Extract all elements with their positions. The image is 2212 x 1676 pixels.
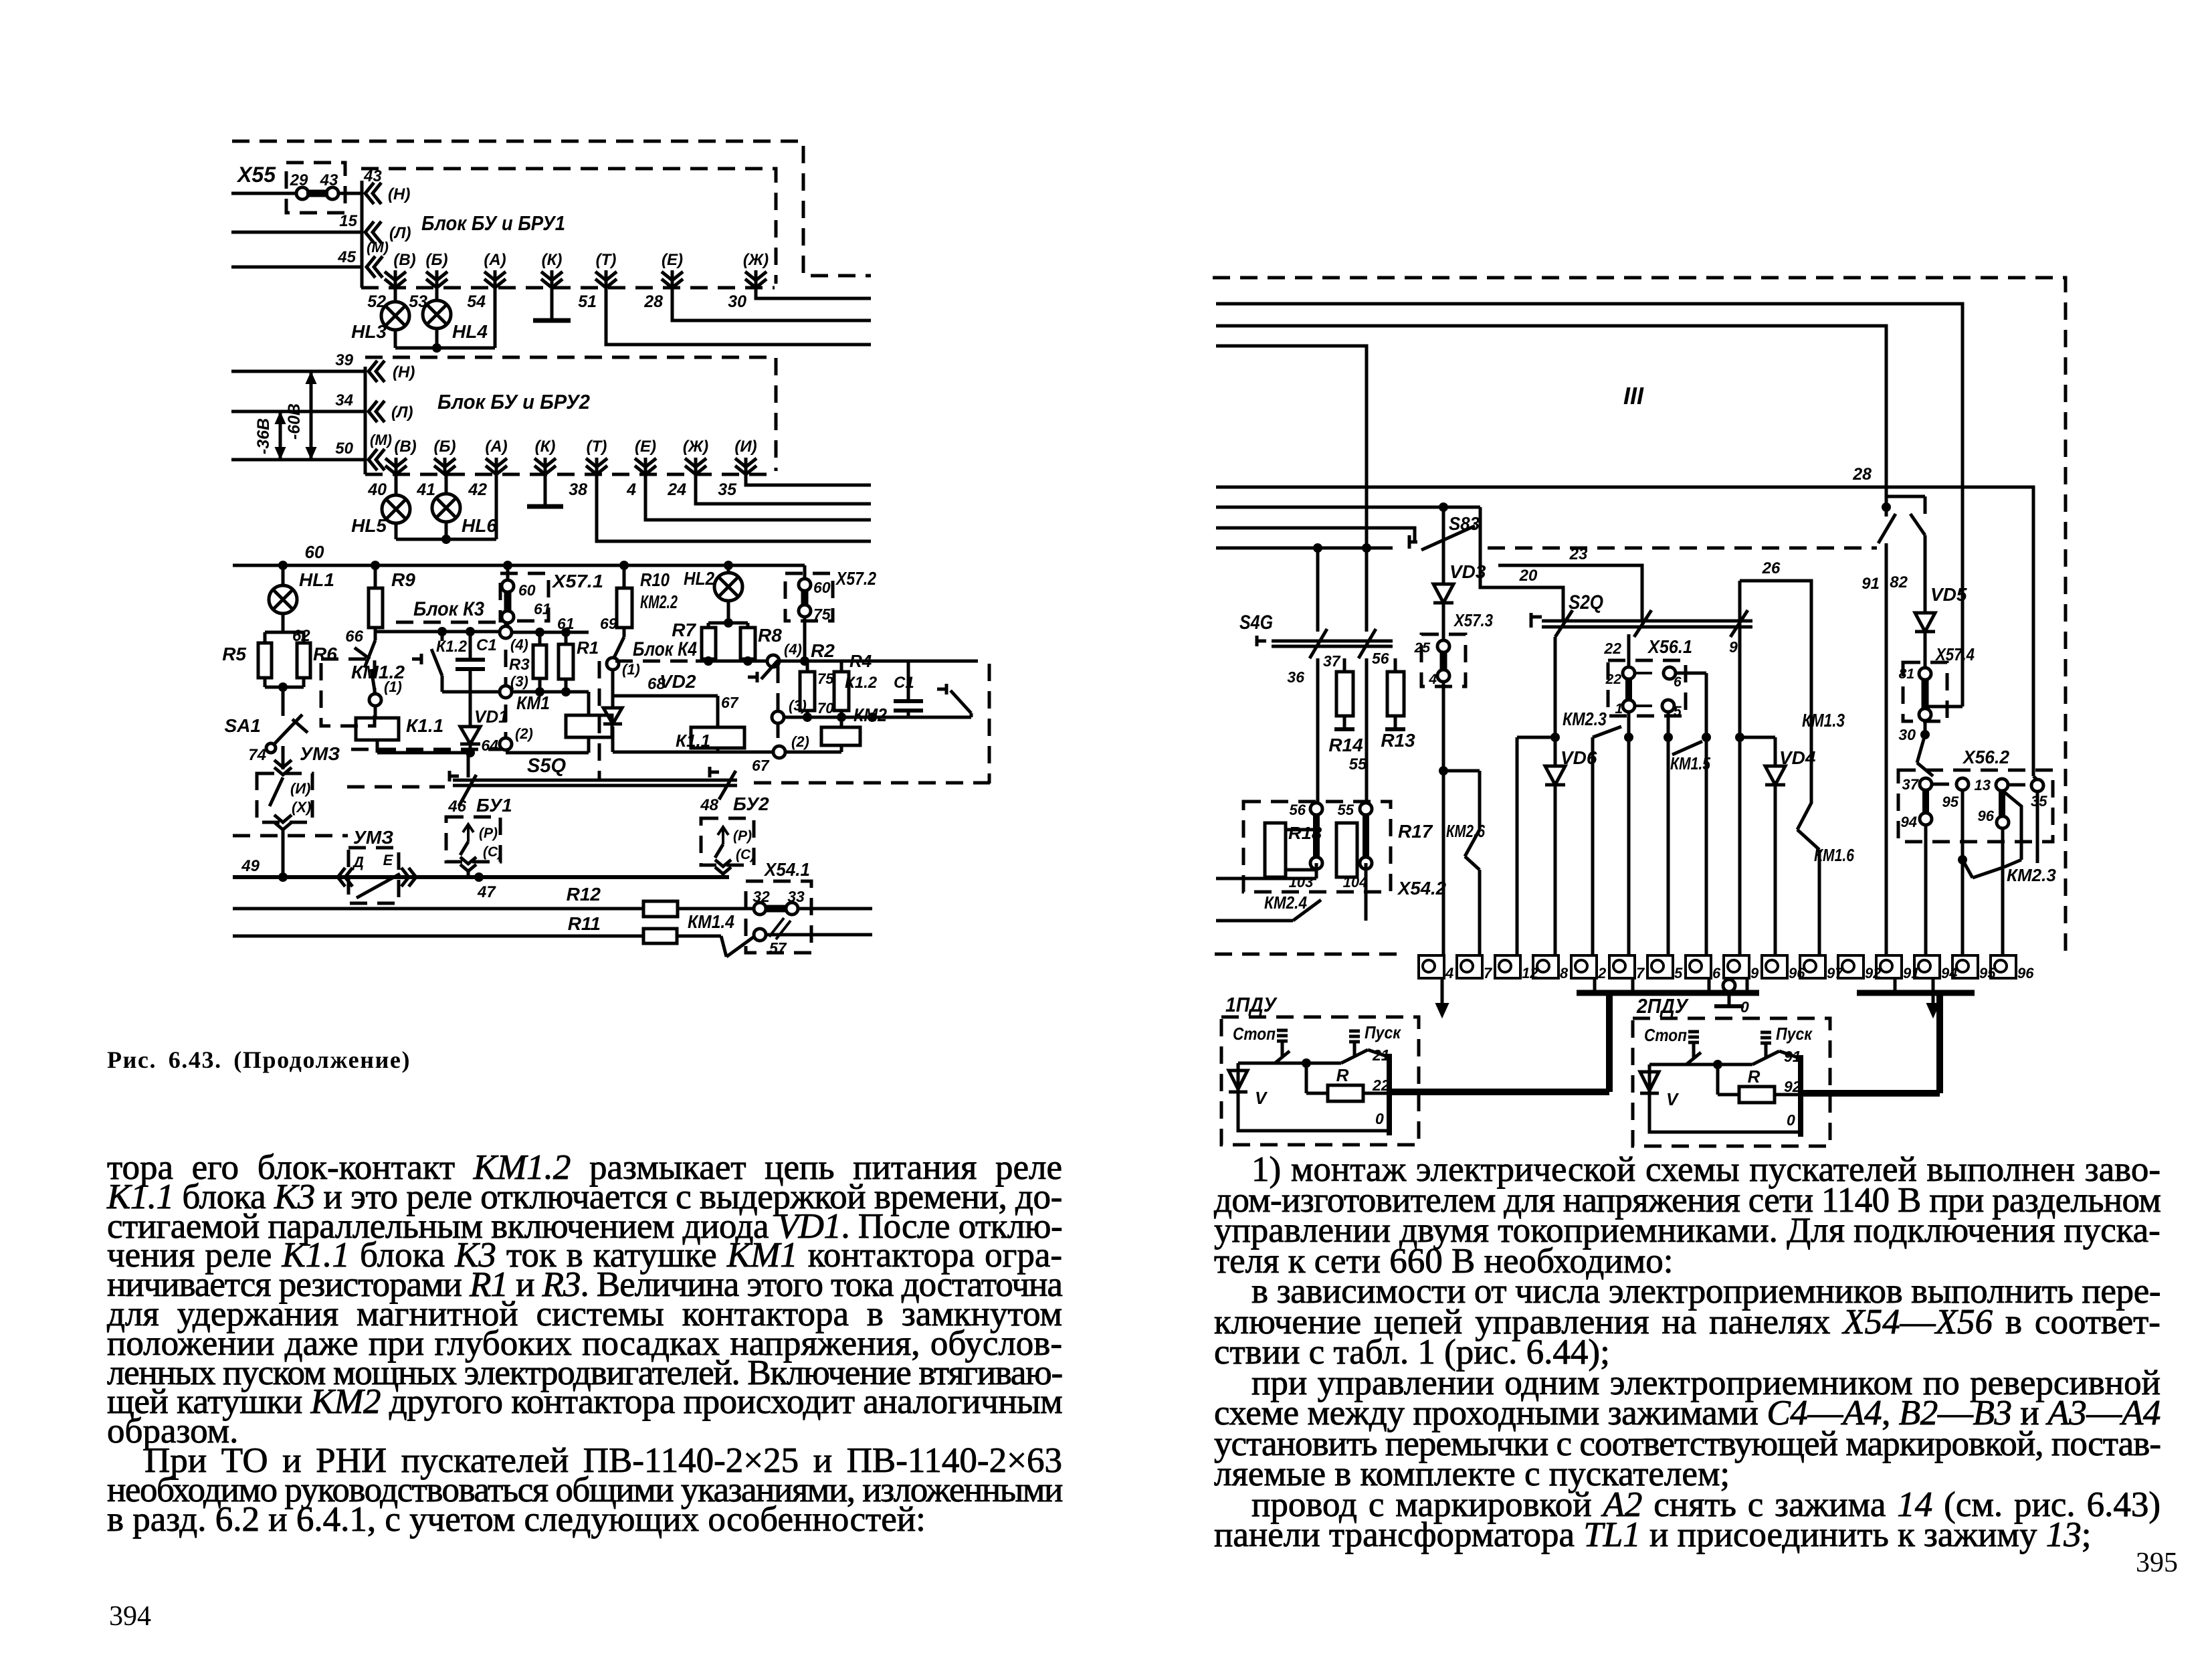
wire SA1 to УМЗ contact xyxy=(274,746,292,775)
diode VD6 xyxy=(1545,637,1597,955)
svg-text:60: 60 xyxy=(305,542,324,562)
svg-text:46: 46 xyxy=(447,798,466,816)
contact КМ2.3 right xyxy=(1963,828,2056,955)
svg-text:HL3: HL3 xyxy=(351,321,387,342)
label 55 xyxy=(1349,755,1367,773)
connector (М) xyxy=(367,239,389,278)
wire 20 xyxy=(1480,526,1563,621)
wire R11 to КМ1.4 xyxy=(677,911,734,936)
resistor R 1ПДУ xyxy=(1306,1063,1390,1127)
svg-text:30: 30 xyxy=(728,292,746,311)
svg-text:91: 91 xyxy=(1862,575,1880,593)
block К4 outline xyxy=(599,638,989,783)
svg-text:(Т): (Т) xyxy=(587,438,607,456)
contact КМ1.2 xyxy=(321,640,405,726)
svg-text:(С): (С) xyxy=(483,844,502,860)
connector X57.2 xyxy=(785,565,876,661)
wire X56.1 drops xyxy=(1624,711,1673,955)
wire 51 from (Т) xyxy=(606,288,871,345)
svg-text:(М): (М) xyxy=(367,239,389,256)
svg-text:(К): (К) xyxy=(535,438,556,456)
svg-text:23: 23 xyxy=(1569,545,1588,563)
svg-text:35: 35 xyxy=(718,480,737,499)
svg-text:(Е): (Е) xyxy=(662,251,683,269)
diode VD5 xyxy=(1915,535,1967,668)
svg-text:R5: R5 xyxy=(222,644,246,664)
contact КМ1.6 xyxy=(1797,803,1854,955)
label 47 xyxy=(477,883,496,901)
node 36 55 circles xyxy=(1289,802,1368,891)
wire 50 (М) xyxy=(231,440,365,460)
wire 15 (Л) xyxy=(231,212,362,232)
ground under (К) БРУ2 xyxy=(527,474,563,506)
svg-text:6: 6 xyxy=(1712,965,1721,982)
svg-text:94: 94 xyxy=(1901,814,1917,830)
svg-text:54: 54 xyxy=(467,292,486,311)
svg-text:(Р): (Р) xyxy=(733,828,752,844)
resistor R6 xyxy=(297,632,337,687)
wire 28 from (Е) xyxy=(672,288,871,320)
ground under (К) БРУ1 xyxy=(533,288,571,320)
wire left rail 1313 xyxy=(1216,863,1316,878)
svg-text:7: 7 xyxy=(1636,965,1645,982)
lamp HL4 xyxy=(423,288,488,348)
wire 30 from (Ж) xyxy=(756,288,871,298)
svg-text:УМЗ: УМЗ xyxy=(300,743,340,764)
svg-text:Блок К4: Блок К4 xyxy=(633,638,697,660)
wire 39 (Н) xyxy=(231,351,365,371)
resistor R2 xyxy=(800,640,835,717)
resistor R17 xyxy=(1336,803,1372,877)
svg-text:R6: R6 xyxy=(313,644,337,664)
svg-text:Стоп: Стоп xyxy=(1233,1024,1276,1044)
svg-text:75: 75 xyxy=(817,670,834,687)
svg-text:Пуск: Пуск xyxy=(1365,1022,1402,1042)
block БУ2 box xyxy=(700,794,769,877)
svg-text:95: 95 xyxy=(1942,794,1959,810)
svg-text:КМ1: КМ1 xyxy=(516,692,550,713)
contact S2Q pole 9 xyxy=(1729,610,1748,656)
svg-text:(Л): (Л) xyxy=(391,403,413,422)
contact S4G pole 56 xyxy=(1359,548,1389,809)
wire rail 728 xyxy=(1216,487,2033,776)
svg-text:4: 4 xyxy=(1428,672,1437,687)
svg-text:Стоп: Стоп xyxy=(1644,1025,1687,1045)
label Пуск 1 xyxy=(1365,1022,1402,1042)
node 37 xyxy=(1902,776,1956,793)
svg-text:60: 60 xyxy=(518,581,536,599)
svg-text:6: 6 xyxy=(1674,674,1682,690)
resistor R14 xyxy=(1328,658,1363,755)
relay КМ2 xyxy=(752,705,887,774)
capacitor С1 блока К3 xyxy=(442,632,506,692)
svg-text:37: 37 xyxy=(1323,652,1341,670)
svg-text:(1): (1) xyxy=(622,661,640,678)
block БУ и БРУ1 outline xyxy=(361,169,776,288)
connector (Ж) pin 30 of БРУ1 xyxy=(728,251,769,311)
svg-text:(И): (И) xyxy=(734,438,757,456)
label Пуск 2 xyxy=(1776,1024,1813,1044)
resistor R9 xyxy=(345,565,415,646)
svg-text:(1): (1) xyxy=(384,678,402,695)
connector (Н) xyxy=(365,183,410,204)
wire thick bus 2 xyxy=(1709,978,1747,993)
svg-text:29: 29 xyxy=(290,171,308,189)
svg-text:S2Q: S2Q xyxy=(1569,591,1603,614)
dimension -60В xyxy=(285,373,316,458)
wire lamp bottoms to pin 54 xyxy=(395,288,495,353)
page number 395 xyxy=(2136,1547,2178,1579)
svg-text:4: 4 xyxy=(626,480,636,499)
block 2ПДУ box xyxy=(1633,994,1830,1146)
labels 91 82 xyxy=(1862,573,1908,593)
svg-text:7: 7 xyxy=(1484,965,1493,982)
svg-text:40: 40 xyxy=(367,480,387,499)
svg-text:III: III xyxy=(1623,382,1644,409)
svg-text:КМ1.3: КМ1.3 xyxy=(1802,710,1845,731)
svg-text:55: 55 xyxy=(1338,802,1354,818)
contact БУ1 blade xyxy=(449,771,476,806)
svg-text:R17: R17 xyxy=(1398,821,1433,842)
contact S2Q pole 20 xyxy=(1555,610,1573,637)
wire 2ПДУ output xyxy=(1801,995,1940,1093)
capacitor С1 блока К4 xyxy=(894,661,923,717)
wire down arrow left xyxy=(1436,978,1448,1017)
svg-text:(Ж): (Ж) xyxy=(743,251,769,269)
svg-text:34: 34 xyxy=(335,391,353,409)
svg-text:К1.2: К1.2 xyxy=(845,674,878,692)
svg-text:(Б): (Б) xyxy=(434,438,456,456)
svg-text:(Р): (Р) xyxy=(479,826,498,841)
svg-text:(В): (В) xyxy=(393,251,415,269)
svg-text:60: 60 xyxy=(813,579,831,596)
wire top rail a xyxy=(1216,304,1963,707)
wire R12 to X54.1 xyxy=(678,907,755,911)
svg-text:8: 8 xyxy=(1560,965,1569,982)
wire 35 drop xyxy=(2036,791,2039,863)
svg-text:(А): (А) xyxy=(484,251,506,269)
svg-text:64: 64 xyxy=(481,737,498,754)
wire down arrow right xyxy=(1927,978,1939,1017)
wire 95 drop xyxy=(1958,789,1967,955)
connector (К) pin - of БРУ2 xyxy=(534,438,556,474)
svg-text:V: V xyxy=(1666,1089,1680,1109)
wire dashed branch xyxy=(233,834,348,838)
label Блок БУ и БРУ2 xyxy=(437,390,590,413)
connector (А) pin 42 of БРУ2 xyxy=(468,438,507,499)
svg-text:(4): (4) xyxy=(784,641,802,658)
wire t12 drop xyxy=(1516,737,1519,955)
svg-text:22: 22 xyxy=(1603,640,1621,657)
svg-text:(2): (2) xyxy=(515,725,533,742)
svg-text:К1.1: К1.1 xyxy=(406,715,443,736)
svg-text:HL4: HL4 xyxy=(452,321,488,342)
svg-text:(А): (А) xyxy=(485,438,507,456)
svg-text:69: 69 xyxy=(600,615,617,632)
svg-text:24: 24 xyxy=(667,480,686,499)
diode VD1 xyxy=(460,692,508,754)
svg-text:39: 39 xyxy=(335,351,353,369)
wire 38 from (Т) xyxy=(597,474,871,541)
svg-text:R7: R7 xyxy=(672,620,696,640)
svg-text:82: 82 xyxy=(1890,573,1908,591)
node 57 xyxy=(754,929,872,957)
wire outer dashed boundary (top left figure) xyxy=(232,141,871,276)
svg-text:70: 70 xyxy=(817,700,834,717)
wire R5 R6 bottom node xyxy=(265,682,304,716)
contact БУ2 blade xyxy=(710,767,736,800)
label Стоп 1 xyxy=(1233,1024,1276,1044)
diode V 2ПДУ xyxy=(1640,1064,1801,1132)
svg-text:КМ2: КМ2 xyxy=(853,705,887,725)
contact КМ2.х xyxy=(1802,707,1933,776)
resistor R 2ПДУ xyxy=(1718,1064,1801,1129)
svg-text:(М): (М) xyxy=(370,432,392,448)
svg-text:(Б): (Б) xyxy=(426,251,448,269)
svg-text:38: 38 xyxy=(569,480,587,499)
svg-text:Блок БУ и БРУ1: Блок БУ и БРУ1 xyxy=(421,211,565,235)
switch S4G xyxy=(1239,612,1393,646)
connector (Е) pin 28 of БРУ1 xyxy=(643,251,683,311)
svg-text:КМ2.4: КМ2.4 xyxy=(1264,893,1307,913)
caption Рис. 6.43 xyxy=(107,1046,411,1074)
contact КМ1.4 xyxy=(721,935,756,957)
svg-text:R11: R11 xyxy=(568,913,601,934)
diode VD3 xyxy=(1433,507,1486,641)
svg-text:R8: R8 xyxy=(758,625,782,646)
svg-text:R3: R3 xyxy=(509,656,530,674)
block 1ПДУ box xyxy=(1221,993,1419,1145)
svg-text:9: 9 xyxy=(1729,638,1738,656)
wire К3 top rail xyxy=(375,627,500,636)
lamp HL5 xyxy=(351,474,410,539)
svg-text:X56.2: X56.2 xyxy=(1962,747,2009,767)
svg-text:VD1: VD1 xyxy=(474,707,508,727)
relay КМ1 xyxy=(506,692,612,753)
contact КМ1.3 upper xyxy=(1878,496,1925,554)
svg-text:R: R xyxy=(1748,1066,1761,1087)
wire 24 from (Ж) xyxy=(696,474,871,504)
resistor R12 xyxy=(643,901,678,917)
wire 34 (Л) xyxy=(231,391,365,411)
connector (Б) pin 41 of БРУ2 xyxy=(416,438,456,499)
contact КМ2.3 xyxy=(1563,709,1621,955)
svg-text:HL6: HL6 xyxy=(462,515,497,536)
svg-text:УМЗ: УМЗ xyxy=(353,827,393,848)
resistor R3 xyxy=(509,615,617,692)
svg-text:X57.2: X57.2 xyxy=(835,568,876,589)
connector X54.1 xyxy=(746,859,811,953)
connector X57.1 xyxy=(500,565,603,629)
svg-text:15: 15 xyxy=(339,212,357,230)
svg-text:36: 36 xyxy=(1287,668,1304,686)
node (3) блока К4 xyxy=(772,697,971,723)
svg-text:R2: R2 xyxy=(811,640,835,661)
svg-text:(Ж): (Ж) xyxy=(683,438,708,456)
svg-text:30: 30 xyxy=(1898,726,1916,743)
svg-text:51: 51 xyxy=(578,292,597,311)
svg-text:V: V xyxy=(1255,1088,1268,1108)
page number 394 xyxy=(109,1600,151,1633)
svg-text:28: 28 xyxy=(643,292,663,311)
svg-text:БУ1: БУ1 xyxy=(476,795,512,816)
connector (А) pin 54 of БРУ1 xyxy=(467,251,506,311)
svg-text:(Н): (Н) xyxy=(393,363,415,381)
node 35 xyxy=(2031,776,2047,810)
wire lamp bottoms to pin 42 xyxy=(396,474,496,544)
wire 1ПДУ output xyxy=(1389,995,1609,1092)
wire bus R11 xyxy=(233,913,643,936)
node (4) блока К3 xyxy=(500,626,528,653)
wire К1.1 to S5Q xyxy=(468,725,533,777)
node 94 xyxy=(1901,813,1932,955)
svg-text:SA1: SA1 xyxy=(225,715,261,736)
contact К1.2 блока К4 xyxy=(845,674,971,717)
connector (Е) pin 4 of БРУ2 xyxy=(626,438,656,499)
node 13 xyxy=(1975,777,2031,794)
resistor R8 xyxy=(740,623,782,661)
svg-text:81: 81 xyxy=(1899,666,1914,682)
svg-text:55: 55 xyxy=(1349,755,1367,773)
svg-text:5: 5 xyxy=(1674,965,1683,982)
svg-text:49: 49 xyxy=(241,857,260,875)
svg-text:(3): (3) xyxy=(789,697,807,714)
svg-text:(2): (2) xyxy=(791,733,809,750)
wire t4 drop xyxy=(1442,771,1445,955)
svg-text:X57.3: X57.3 xyxy=(1453,610,1493,630)
connector X54.2 box xyxy=(1243,802,1446,899)
svg-text:HL2: HL2 xyxy=(684,568,714,589)
button Пуск 1 xyxy=(1341,1031,1390,1135)
svg-text:(4): (4) xyxy=(510,636,528,653)
label III xyxy=(1623,382,1644,409)
svg-text:(В): (В) xyxy=(394,438,416,456)
connector (Л) БРУ2 xyxy=(369,401,413,422)
label Стоп 2 xyxy=(1644,1025,1687,1045)
svg-text:С1: С1 xyxy=(476,636,497,654)
svg-text:КМ1.4: КМ1.4 xyxy=(688,911,734,932)
resistor R10 xyxy=(617,565,678,637)
wire 32-33 out xyxy=(797,907,872,911)
wire top rail b xyxy=(1216,326,1886,507)
svg-text:28: 28 xyxy=(1852,465,1872,484)
wire t5 t6 drops xyxy=(1738,737,1742,955)
lamp HL6 xyxy=(432,474,497,539)
svg-text:74: 74 xyxy=(248,746,266,764)
svg-text:(Т): (Т) xyxy=(596,251,617,269)
svg-text:47: 47 xyxy=(477,883,496,901)
svg-text:96: 96 xyxy=(1978,808,1995,824)
svg-text:-36В: -36В xyxy=(254,418,273,454)
wire 43 (H) xyxy=(231,167,382,193)
lamp HL1 xyxy=(269,565,334,645)
svg-text:20: 20 xyxy=(1519,567,1538,585)
svg-text:43: 43 xyxy=(320,171,338,189)
contact S4G pole 37 xyxy=(1287,548,1340,809)
wire top rail c xyxy=(1216,346,1367,548)
connector (Т) pin 51 of БРУ1 xyxy=(578,251,617,311)
svg-text:Е: Е xyxy=(383,852,394,868)
svg-text:2: 2 xyxy=(1597,965,1607,982)
resistor R11 xyxy=(643,929,677,943)
wire bus 49 xyxy=(233,857,729,882)
svg-text:61: 61 xyxy=(557,615,575,632)
svg-text:КМ1.5: КМ1.5 xyxy=(1670,753,1710,773)
connector (Ж) pin 24 of БРУ2 xyxy=(667,438,708,499)
connector (М) БРУ2 xyxy=(369,432,392,470)
svg-text:X54.1: X54.1 xyxy=(763,859,810,880)
switch S5Q bar xyxy=(347,755,990,787)
svg-text:К1.2: К1.2 xyxy=(436,638,468,656)
switch SA1 xyxy=(225,715,340,764)
contact УМЗ Д-Е xyxy=(338,827,416,903)
svg-text:(Л): (Л) xyxy=(389,224,411,242)
svg-text:67: 67 xyxy=(721,694,739,711)
svg-text:48: 48 xyxy=(700,796,718,814)
diode VD4 xyxy=(1735,733,1816,955)
resistor R7 xyxy=(672,618,748,661)
relay К1.1 блока К4 xyxy=(613,727,774,752)
svg-text:S4G: S4G xyxy=(1239,612,1273,634)
svg-text:Пуск: Пуск xyxy=(1776,1024,1813,1044)
svg-text:22: 22 xyxy=(1372,1077,1390,1094)
diode VD2 xyxy=(603,671,696,752)
relay К1.1 блока К3 xyxy=(356,715,475,757)
wire thick bus 1 xyxy=(1577,978,1759,993)
svg-text:0: 0 xyxy=(1787,1111,1795,1129)
svg-text:R9: R9 xyxy=(391,569,415,590)
connector (Л) xyxy=(365,221,411,243)
svg-text:56: 56 xyxy=(1290,802,1306,818)
svg-text:5: 5 xyxy=(1674,704,1682,719)
connector X55 xyxy=(236,163,345,213)
svg-text:61: 61 xyxy=(534,600,551,618)
resistor R18 xyxy=(1265,823,1322,877)
diode V 1ПДУ xyxy=(1229,1063,1389,1131)
block К3 outline xyxy=(351,598,506,749)
svg-text:25: 25 xyxy=(1414,640,1431,656)
wire dashed rail 819 xyxy=(1488,547,1877,550)
svg-text:41: 41 xyxy=(416,480,435,499)
svg-text:(Е): (Е) xyxy=(635,438,656,456)
svg-text:С1: С1 xyxy=(894,674,914,692)
svg-text:(И): (И) xyxy=(290,780,310,797)
svg-text:35: 35 xyxy=(2031,793,2047,810)
svg-text:-60В: -60В xyxy=(285,403,304,440)
wire outer dashed boundary (right figure) xyxy=(1213,278,2066,954)
svg-text:57: 57 xyxy=(769,939,787,957)
svg-text:(3): (3) xyxy=(510,673,528,690)
switch S83 xyxy=(1409,507,1480,550)
node (1) блока К3 xyxy=(369,669,402,718)
svg-text:Блок БУ и БРУ2: Блок БУ и БРУ2 xyxy=(437,390,590,413)
connector (Т) pin 38 of БРУ2 xyxy=(569,438,607,499)
svg-text:56: 56 xyxy=(1372,650,1389,667)
contact УМЗ (И)(Х) box xyxy=(257,773,312,877)
wire bus R12 xyxy=(233,884,643,909)
connector X57.3 xyxy=(1414,610,1494,775)
svg-text:0: 0 xyxy=(1740,998,1749,1016)
wire rail 758 xyxy=(1216,502,1480,512)
block БУ и БРУ2 outline xyxy=(365,357,776,474)
svg-text:92: 92 xyxy=(1784,1078,1801,1095)
label Блок БУ и БРУ1 xyxy=(421,211,565,235)
contact КМ2.2 xyxy=(613,637,624,660)
svg-text:X56.1: X56.1 xyxy=(1647,636,1692,657)
wire К4 top rail xyxy=(696,641,978,667)
contact К1.2 блока К3 xyxy=(412,632,468,692)
svg-text:4: 4 xyxy=(1445,965,1453,982)
